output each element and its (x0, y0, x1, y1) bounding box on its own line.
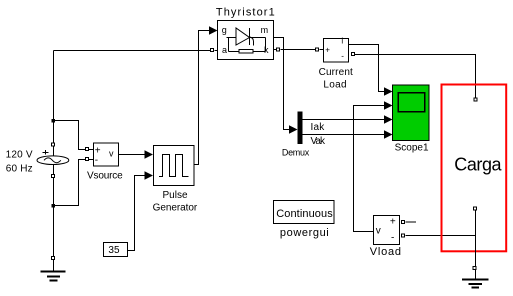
label Pulse Generator (153, 190, 198, 213)
svg-text:Generator: Generator (153, 202, 198, 213)
label Vak (311, 136, 326, 147)
wire Vload minus to Carga bottom vertical (406, 235, 476, 237)
arrowhead into Demux (289, 125, 298, 134)
wire Vsource port stubs (89, 150, 94, 160)
wire Pulse Generator output to thyristor gate (194, 31, 211, 165)
svg-text:a: a (222, 45, 227, 55)
thyristor snubber right vertical (265, 38, 267, 52)
arrowhead scope input 3 (384, 115, 393, 124)
load subsystem Carga red box (442, 85, 507, 252)
Vsource port minus (86, 158, 89, 161)
arrowhead into Pulse Generator input 2 (145, 171, 154, 180)
wire branch to Vsource plus (54, 121, 86, 150)
Carga top port square (474, 98, 477, 101)
svg-text:m: m (261, 25, 269, 35)
svg-text:v: v (376, 226, 381, 237)
svg-text:+: + (390, 217, 396, 228)
label Iak (311, 122, 326, 133)
AC source top port (52, 143, 55, 146)
arrowhead scope input 4 (384, 130, 393, 139)
Carga bottom port square (474, 207, 477, 210)
wire Carga bottom to ground right (475, 211, 477, 280)
wire branch to Vsource minus (54, 160, 86, 206)
wire Current Load i output to Scope input 1 (349, 45, 387, 92)
ground left port (52, 257, 55, 260)
thyristor U1 block Thyristor1 (218, 21, 274, 60)
voltage measurement Vload (374, 216, 400, 245)
label powergui (280, 227, 329, 239)
wire Demux output 2 (Vak) to Scope input 4 (303, 134, 387, 136)
label Thyristor1 (216, 7, 276, 19)
powergui block Continuous (274, 201, 335, 224)
wire anode port stub (215, 50, 218, 52)
wire Vsource v output to Pulse Generator (119, 154, 147, 156)
svg-text:powergui: powergui (280, 227, 329, 239)
svg-text:Vload: Vload (370, 246, 402, 258)
label 120 V 60 Hz (6, 149, 33, 174)
wire top rail from source to thyristor anode (54, 50, 211, 52)
node junction bottom (to Vsource -) (52, 204, 56, 208)
Vload plus port square (402, 221, 405, 224)
label Vload (370, 246, 402, 258)
Vload minus port square (402, 234, 405, 237)
label Demux (282, 148, 310, 158)
ground right port (473, 267, 476, 270)
svg-text:-: - (341, 52, 344, 61)
svg-text:Load: Load (323, 79, 346, 90)
svg-text:Scope1: Scope1 (395, 143, 429, 154)
wire thyristor k to Current Load (274, 49, 324, 51)
wire Current Load minus to Carga top (355, 55, 476, 98)
subsystem Pulse Generator (154, 146, 195, 186)
thyristor icon cathode bar (249, 28, 251, 45)
Vsource port plus (86, 148, 89, 151)
svg-text:-: - (95, 155, 98, 166)
svg-text:60 Hz: 60 Hz (6, 163, 33, 174)
resistor snubber (239, 50, 253, 54)
arrowhead scope input 1 (384, 87, 393, 96)
AC source bottom port (52, 175, 55, 178)
thyristor cathode port square (277, 48, 280, 51)
label Vsource (87, 171, 123, 182)
ground right (462, 280, 489, 288)
svg-text:-: - (391, 233, 394, 244)
AC source polarity plus (43, 150, 49, 155)
svg-text:120 V: 120 V (6, 149, 33, 160)
thyristor icon gate hook (250, 37, 254, 46)
wire main left vertical (53, 51, 55, 257)
node junction top (to Vsource +) (52, 119, 56, 123)
svg-text:g: g (222, 25, 227, 35)
label Carga (454, 155, 502, 175)
arrowhead into thyristor gate g (209, 26, 218, 35)
thyristor icon cathode lead (250, 37, 266, 39)
constant block 35 (104, 243, 128, 257)
svg-text:35: 35 (108, 245, 120, 256)
ground left (41, 260, 66, 281)
Current Load minus port square (352, 53, 355, 56)
wire 35 to Pulse Generator input 2 (128, 176, 147, 251)
thyristor anode port square (211, 49, 214, 52)
svg-text:Demux: Demux (282, 148, 310, 158)
svg-text:v: v (109, 149, 114, 159)
label Scope1 (395, 143, 429, 154)
svg-text:Vak: Vak (311, 136, 326, 147)
AC source 120V 60Hz ellipse (37, 156, 69, 165)
thyristor icon triangle (236, 28, 250, 45)
arrowhead scope input 2 (384, 101, 393, 110)
thyristor snubber left vertical (228, 38, 230, 52)
current measurement Current Load (324, 37, 349, 63)
Current Load input port square (316, 48, 319, 51)
thyristor snubber bottom rail (229, 51, 266, 53)
svg-text:+: + (325, 46, 330, 55)
svg-text:Continuous: Continuous (276, 208, 333, 220)
svg-text:Current: Current (319, 67, 353, 78)
svg-text:Thyristor1: Thyristor1 (216, 7, 276, 19)
svg-text:Iak: Iak (311, 122, 326, 133)
wire Vload plus stub (406, 221, 417, 223)
arrowhead into Pulse Generator input 1 (145, 150, 154, 159)
wire Demux output 1 (Iak) to Scope input 3 (303, 119, 387, 121)
wire thyristor m output to Demux (274, 38, 290, 130)
scope Scope1 (393, 85, 430, 141)
svg-text:Carga: Carga (454, 155, 502, 175)
voltage measurement Vsource (94, 143, 119, 166)
svg-text:Pulse: Pulse (163, 190, 188, 201)
wire Vload v output to Scope input 2 (354, 106, 387, 232)
svg-text:Vsource: Vsource (87, 171, 123, 182)
svg-text:i: i (341, 37, 343, 46)
label Current Load (319, 67, 353, 91)
svg-text:k: k (264, 45, 269, 55)
thyristor icon anode lead (227, 37, 237, 39)
demux Demux (298, 112, 303, 145)
